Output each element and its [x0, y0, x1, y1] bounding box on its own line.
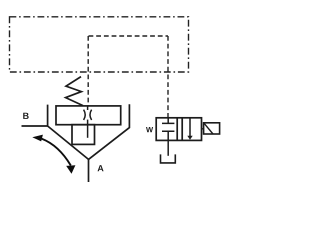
blocked port upper T	[162, 118, 174, 124]
tank line	[167, 140, 169, 155]
flow arrow arc	[42, 139, 71, 166]
flow arrow upper head	[32, 135, 43, 142]
pilot line right (dashed, to solenoid valve)	[167, 36, 169, 118]
pilot box top edge (dashed)	[89, 35, 169, 37]
flow arrow lower head	[66, 165, 75, 174]
port B line	[22, 125, 48, 127]
port A line	[88, 159, 90, 182]
label A	[98, 165, 104, 171]
label W	[146, 127, 153, 132]
open position arrowhead	[187, 136, 192, 140]
solenoid coil diagonal	[204, 123, 213, 134]
extra divider line	[181, 118, 183, 141]
orifice left arc	[84, 110, 86, 120]
tank symbol	[161, 154, 176, 163]
blocked port lower T	[162, 131, 174, 140]
manifold enclosure boundary (dash-dot rectangle)	[10, 17, 189, 72]
label B	[23, 113, 28, 119]
poppet body rect	[56, 106, 121, 125]
pilot line left (dashed, to cartridge valve)	[87, 36, 89, 106]
poppet stem rect	[72, 125, 95, 145]
cartridge valve seat right wall and diagonal	[89, 104, 130, 159]
valve position divider	[176, 118, 178, 141]
solenoid coil box	[204, 123, 220, 134]
open position flow line	[189, 118, 191, 137]
orifice right arc	[90, 110, 92, 120]
solenoid connector stub	[202, 128, 204, 130]
cartridge valve seat left wall and diagonal	[48, 105, 89, 160]
spring zigzag	[66, 77, 83, 106]
orifice upper stub	[87, 106, 89, 110]
solenoid valve outer frame	[156, 118, 201, 141]
orifice lower stub / pilot into stem	[87, 120, 89, 138]
